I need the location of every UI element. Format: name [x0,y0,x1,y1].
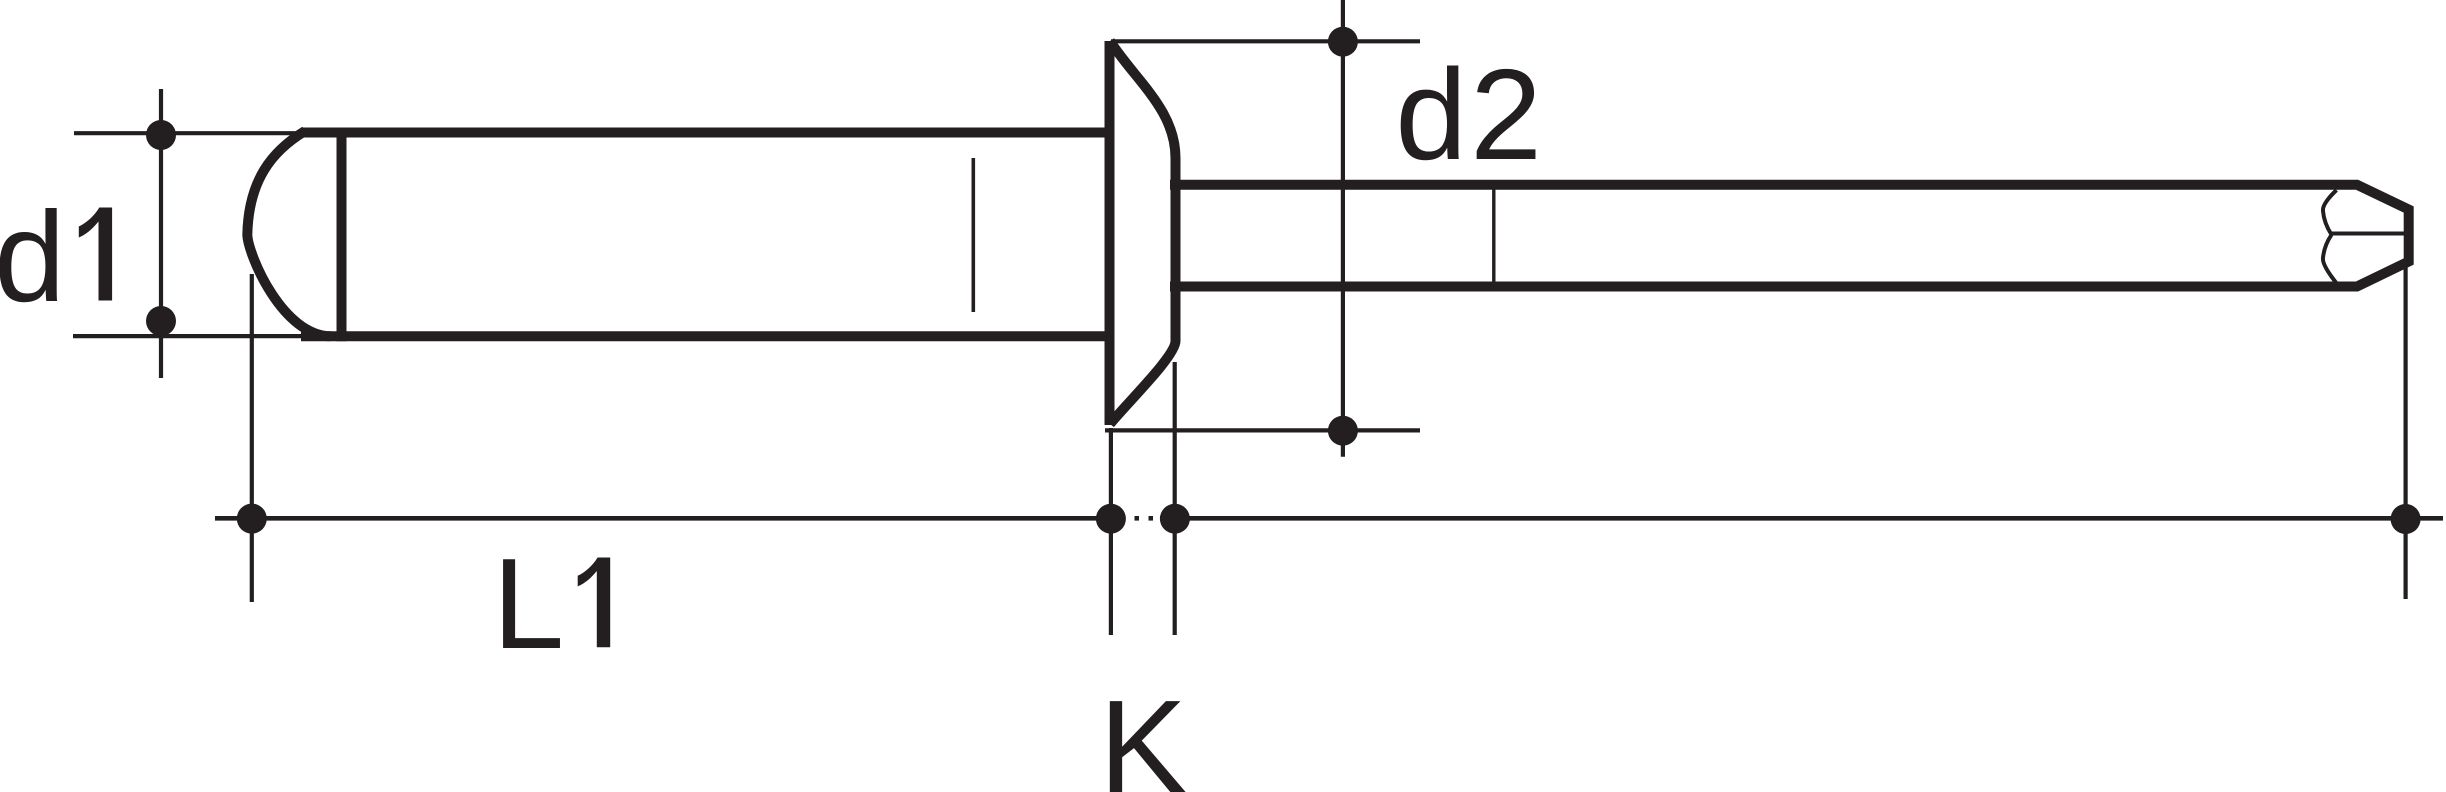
K dimension line dash 2 [1149,516,1154,521]
label d1 [0,186,112,329]
svg-text:d: d [0,186,65,329]
rivet head outer profile curve [1110,41,1176,424]
label K [1099,673,1187,792]
mandrel tip extension line [2404,267,2408,599]
mandrel tip upper notch chevron [2323,190,2337,235]
mandrel dimension line [1160,516,2443,521]
rivet body axis tick [971,158,975,312]
d2 top extension line [1111,39,1420,43]
d1 top extension line [74,131,302,135]
K dimension line dash 1 [1135,516,1140,521]
label d2 [1395,43,1542,187]
K left dot [1096,504,1126,534]
d1 bottom dot [146,306,176,336]
rivet body top line [301,128,1110,138]
svg-text:L: L [493,532,565,676]
L1 left dot [237,504,267,534]
d2 dimension vertical line [1341,0,1345,457]
label L1 [493,532,611,676]
mandrel tip lower notch chevron [2323,235,2337,284]
L1 left extension line [250,274,254,602]
d1 dimension vertical line [159,89,163,378]
K left extension line [1109,428,1113,635]
d1 top dot [146,120,176,150]
K right extension line [1173,362,1177,635]
d1 bottom extension line [73,334,302,338]
rivet body dome joint vertical line [337,128,347,342]
K right dot [1160,504,1190,534]
rivet body dome end cap curve [247,131,331,336]
rivet body bottom line [301,331,1110,341]
svg-text:2: 2 [1470,43,1542,187]
svg-text:d: d [1395,43,1467,187]
d2 bottom extension line [1105,428,1420,432]
mandrel break line [1492,188,1495,285]
d2 top dot [1328,27,1358,57]
d2 bottom dot [1328,416,1358,446]
mandrel outline with tip [1170,185,2409,287]
mandrel dimension right dot [2391,504,2421,534]
L1 dimension line [215,516,1126,521]
mandrel tip center line [2332,232,2405,236]
svg-text:K: K [1099,673,1187,792]
rivet head left vertical edge [1105,41,1115,425]
